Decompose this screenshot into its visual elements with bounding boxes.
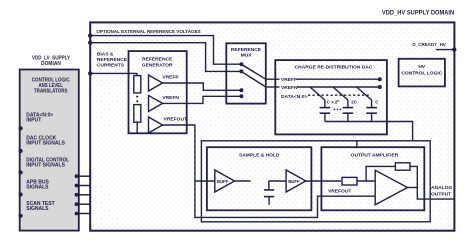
svg-text:CONTROL LOGIC: CONTROL LOGIC xyxy=(401,70,442,76)
svg-text:VREFN: VREFN xyxy=(162,95,179,101)
svg-text:VREFP: VREFP xyxy=(281,77,298,83)
svg-text:VREFOUT: VREFOUT xyxy=(328,188,351,194)
svg-text:VREFN: VREFN xyxy=(281,85,298,91)
svg-text:BUFF: BUFF xyxy=(217,179,229,184)
svg-text:SIGNALS: SIGNALS xyxy=(26,206,49,212)
svg-text:TRANSLATORS: TRANSLATORS xyxy=(34,88,68,94)
svg-text:INPUT SIGNALS: INPUT SIGNALS xyxy=(26,163,65,169)
svg-text:2C: 2C xyxy=(351,99,357,104)
svg-text:SAMPLE & HOLD: SAMPLE & HOLD xyxy=(239,152,280,158)
svg-text:DATA<N:0>: DATA<N:0> xyxy=(281,94,308,100)
svg-text:CURRENTS: CURRENTS xyxy=(97,63,125,69)
svg-text:CHARGE RE-DISTRIBUTION DAC: CHARGE RE-DISTRIBUTION DAC xyxy=(295,64,373,70)
svg-text:O_CREADY_HV: O_CREADY_HV xyxy=(412,42,446,48)
svg-text:ANALOG: ANALOG xyxy=(431,185,452,191)
svg-text:REFERENCE: REFERENCE xyxy=(231,47,262,53)
svg-text:REFERENCE: REFERENCE xyxy=(97,57,128,63)
svg-text:GENERATOR: GENERATOR xyxy=(142,62,173,68)
svg-text:MUX: MUX xyxy=(241,53,253,59)
svg-text:OUTPUT: OUTPUT xyxy=(431,192,451,198)
svg-text:DOMIAN: DOMIAN xyxy=(41,61,61,67)
svg-text:HV: HV xyxy=(418,64,426,70)
svg-text:VREFOUT: VREFOUT xyxy=(164,116,187,122)
svg-text:INPUT: INPUT xyxy=(26,118,41,124)
svg-text:BIAS &: BIAS & xyxy=(97,52,114,58)
svg-text:REFERENCE: REFERENCE xyxy=(142,57,173,63)
svg-text:VDD_HV SUPPLY DOMAIN: VDD_HV SUPPLY DOMAIN xyxy=(382,9,455,16)
svg-text:BUFF: BUFF xyxy=(288,179,300,184)
svg-text:INPUT SIGNALS: INPUT SIGNALS xyxy=(26,141,65,147)
svg-text:OPTIONAL EXTERNAL REFERENCE VO: OPTIONAL EXTERNAL REFERENCE VOLTAGES xyxy=(96,29,201,35)
svg-text:VREFP: VREFP xyxy=(162,74,179,80)
svg-text:OUTPUT AMPLIFIER: OUTPUT AMPLIFIER xyxy=(351,152,399,158)
svg-text:SIGNALS: SIGNALS xyxy=(26,185,49,191)
